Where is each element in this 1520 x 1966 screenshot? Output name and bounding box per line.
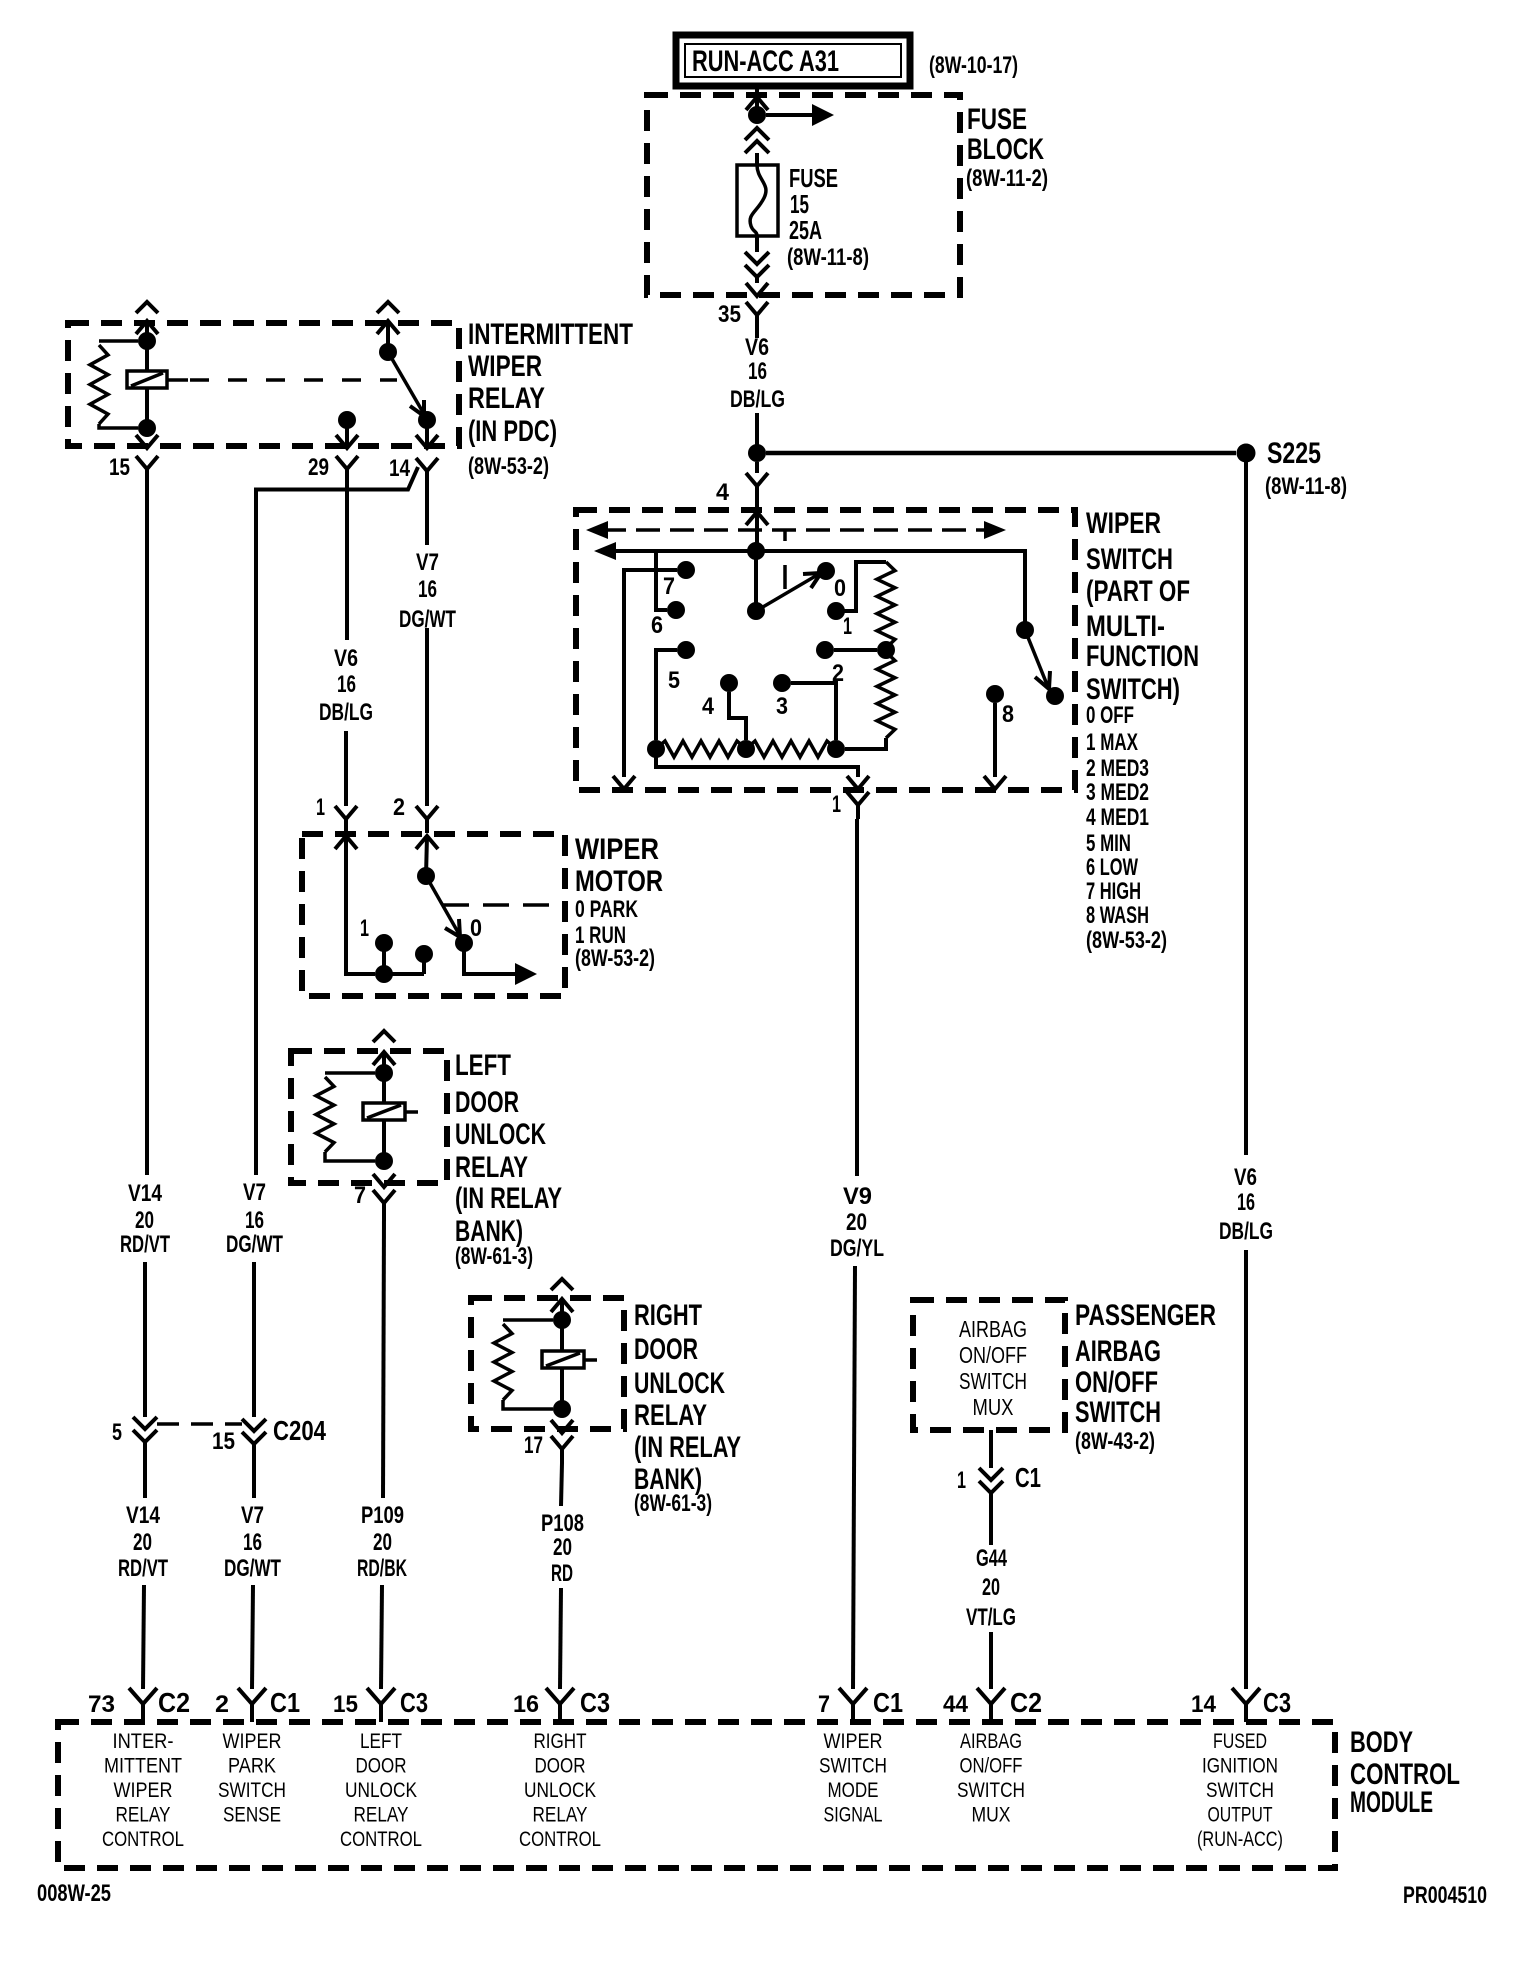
svg-text:20: 20: [373, 1529, 392, 1556]
wire to splice S225: [766, 451, 1236, 456]
svg-text:C2: C2: [158, 1687, 190, 1718]
svg-text:7 HIGH: 7 HIGH: [1086, 878, 1141, 905]
svg-text:LEFT: LEFT: [360, 1730, 402, 1753]
svg-text:V9: V9: [843, 1183, 872, 1210]
label WIPER MOTOR 0 PARK 1 RUN (8W-53-2): [575, 833, 663, 972]
node contact 6: [651, 553, 685, 639]
svg-text:IGNITION: IGNITION: [1202, 1755, 1278, 1778]
pin 1 connector (motor): [316, 794, 357, 849]
svg-text:DOOR: DOOR: [356, 1755, 407, 1778]
svg-text:(8W-11-8): (8W-11-8): [787, 244, 869, 271]
svg-text:AIRBAG: AIRBAG: [960, 1730, 1022, 1753]
svg-text:RELAY: RELAY: [455, 1151, 528, 1184]
svg-text:4 MED1: 4 MED1: [1086, 804, 1149, 831]
label V14 20 RD/VT (lower): [118, 1502, 168, 1582]
node motor park stub: [415, 945, 433, 974]
label V7 16 DG/WT (lower): [224, 1502, 281, 1582]
svg-text:WIPER: WIPER: [824, 1730, 883, 1753]
svg-text:RIGHT: RIGHT: [534, 1730, 587, 1753]
node contact 3: [773, 674, 836, 740]
svg-text:MODE: MODE: [828, 1779, 879, 1802]
wire V6 16 DB/LG (pin 29 to wiper motor 1): [346, 483, 347, 806]
svg-text:V7: V7: [241, 1502, 264, 1529]
svg-text:BLOCK: BLOCK: [967, 133, 1044, 166]
wire top entry: [373, 1031, 395, 1073]
BCM pin 44 C2: [943, 1687, 1042, 1722]
svg-text:SWITCH: SWITCH: [819, 1755, 887, 1778]
svg-text:RELAY: RELAY: [354, 1804, 409, 1827]
svg-text:16: 16: [418, 576, 437, 603]
node contact throw 14: [416, 411, 438, 448]
svg-text:V14: V14: [128, 1180, 163, 1207]
node motor bottom junction: [375, 965, 424, 983]
svg-text:SWITCH: SWITCH: [1075, 1396, 1161, 1429]
wire double chevron down to fuse: [745, 128, 769, 166]
node R1/R2 junction: [877, 641, 895, 659]
svg-text:2 MED3: 2 MED3: [1086, 755, 1149, 782]
resistor chain right: [746, 741, 836, 757]
svg-text:C204: C204: [273, 1415, 326, 1446]
motor switch arm: [426, 876, 460, 937]
BCM pin 2 C1: [215, 1687, 300, 1722]
label switch position list: [1086, 702, 1167, 954]
wire V7 to BCM: [252, 1585, 253, 1689]
wire branch arrow to right inside fuse block: [766, 104, 834, 126]
svg-text:FUSE: FUSE: [967, 103, 1027, 136]
svg-text:V6: V6: [1234, 1164, 1257, 1191]
label V6 16 DB/LG: [730, 334, 785, 413]
svg-text:UNLOCK: UNLOCK: [345, 1779, 417, 1802]
pin 2 connector (motor): [393, 794, 438, 849]
svg-text:1: 1: [843, 613, 852, 640]
svg-text:PARK: PARK: [228, 1755, 276, 1778]
BCM pin 73 C2: [88, 1687, 190, 1722]
svg-text:CONTROL: CONTROL: [102, 1828, 184, 1851]
node contact 2: [816, 641, 877, 687]
node motor contact 0: [455, 915, 482, 952]
svg-text:UNLOCK: UNLOCK: [524, 1779, 596, 1802]
wire V6 16 DB/LG from fuse block: [755, 329, 759, 445]
svg-text:(IN PDC): (IN PDC): [468, 415, 557, 448]
svg-text:25A: 25A: [789, 215, 822, 245]
relay coil (left door): [363, 1073, 418, 1161]
relay contact arm: [377, 302, 424, 416]
pin 35 connector: [718, 301, 768, 329]
label AIRBAG ON/OFF SWITCH MUX (inside): [959, 1316, 1027, 1420]
svg-text:(8W-53-2): (8W-53-2): [575, 945, 655, 972]
label V6 16 DB/LG (right): [1219, 1164, 1273, 1245]
node chain right: [827, 740, 845, 758]
svg-text:AIRBAG: AIRBAG: [1075, 1335, 1161, 1368]
body control module box: [58, 1722, 1335, 1868]
node contact 1: [827, 562, 886, 640]
node contact 8 wash: [984, 685, 1014, 789]
svg-text:C1: C1: [873, 1687, 903, 1718]
svg-text:MULTI-: MULTI-: [1086, 610, 1165, 643]
svg-text:FUSED: FUSED: [1213, 1730, 1267, 1753]
wire V6 16 DB/LG (S225 to BCM): [1244, 462, 1248, 1689]
relay box: intermittent wiper relay (in PDC): [68, 323, 459, 446]
connector C204 pin 15: [212, 1419, 266, 1498]
label V9 20 DG/YL: [830, 1183, 884, 1262]
svg-text:2: 2: [215, 1691, 229, 1718]
svg-text:RELAY: RELAY: [533, 1804, 588, 1827]
svg-text:0 PARK: 0 PARK: [575, 896, 638, 923]
resistor shunt (left door relay): [316, 1073, 375, 1161]
svg-text:7: 7: [818, 1691, 830, 1718]
wire G44 to BCM: [989, 1632, 993, 1689]
node common junction: [747, 542, 765, 611]
wire V7 branch from pin 14: [254, 467, 418, 1417]
switch arm to position 0: [756, 573, 821, 611]
connector C204 pin 5: [112, 1417, 157, 1498]
svg-text:SWITCH: SWITCH: [1206, 1779, 1274, 1802]
svg-text:73: 73: [88, 1691, 115, 1718]
svg-text:RELAY: RELAY: [116, 1804, 171, 1827]
wire to wiper switch pin 4: [716, 462, 768, 551]
label RIGHT DOOR UNLOCK RELAY (IN RELAY BANK) (8W-61-3): [634, 1299, 741, 1517]
wire top entry (right relay): [551, 1279, 573, 1320]
dashed park linkage: [443, 903, 565, 907]
svg-text:V14: V14: [126, 1502, 161, 1529]
wire V14 20 RD/VT (pin 15 to C204): [145, 483, 147, 1417]
svg-text:20: 20: [553, 1534, 572, 1561]
node junction dot at fuse feed: [748, 106, 766, 124]
svg-text:6 LOW: 6 LOW: [1086, 854, 1138, 881]
node contact 5: [656, 641, 695, 740]
svg-text:1: 1: [957, 1467, 966, 1494]
node motor contact 1: [360, 915, 393, 974]
svg-text:CONTROL: CONTROL: [340, 1828, 422, 1851]
svg-text:15: 15: [109, 454, 130, 481]
label FUSE 15 25A (8W-11-8): [787, 163, 869, 271]
svg-text:C3: C3: [1263, 1687, 1291, 1718]
svg-text:RELAY: RELAY: [468, 382, 545, 415]
svg-text:DOOR: DOOR: [634, 1333, 698, 1366]
svg-text:(8W-61-3): (8W-61-3): [634, 1490, 712, 1517]
C204 dashed tie: [157, 1422, 242, 1426]
label WIPER SWITCH (PART OF MULTI-FUNCTION SWITCH): [1086, 507, 1199, 706]
svg-text:14: 14: [1191, 1691, 1217, 1718]
svg-text:16: 16: [748, 358, 767, 385]
svg-text:V6: V6: [745, 334, 769, 361]
svg-text:3 MED2: 3 MED2: [1086, 779, 1149, 806]
wire pin 1 exit: [656, 749, 869, 789]
node chain middle: [737, 740, 755, 758]
svg-text:WIPER: WIPER: [1086, 507, 1161, 540]
svg-text:(8W-11-2): (8W-11-2): [966, 165, 1048, 192]
svg-text:C1: C1: [270, 1687, 300, 1718]
node coil bottom: [373, 1152, 395, 1187]
svg-text:1: 1: [316, 794, 325, 821]
dashed detent linkage: [783, 531, 787, 589]
svg-text:DB/LG: DB/LG: [730, 386, 785, 413]
wire pin 1 C1: [979, 1430, 1003, 1545]
BCM pin 14 C3: [1191, 1687, 1291, 1722]
wiper motor box: [302, 834, 565, 996]
node splice junction: [748, 444, 766, 462]
svg-text:20: 20: [846, 1209, 867, 1236]
svg-text:BODY: BODY: [1350, 1726, 1413, 1759]
svg-text:MUX: MUX: [973, 1394, 1014, 1420]
svg-text:(8W-53-2): (8W-53-2): [468, 453, 549, 480]
svg-text:WIPER: WIPER: [223, 1730, 282, 1753]
svg-text:DG/WT: DG/WT: [224, 1555, 281, 1582]
relay coil K1: [127, 341, 167, 428]
svg-text:1: 1: [832, 791, 841, 818]
svg-text:(8W-53-2): (8W-53-2): [1086, 927, 1167, 954]
svg-text:5: 5: [112, 1419, 122, 1446]
svg-text:4: 4: [716, 479, 730, 506]
svg-text:ON/OFF: ON/OFF: [1075, 1366, 1158, 1399]
svg-text:5: 5: [668, 667, 680, 694]
svg-text:RD/VT: RD/VT: [118, 1555, 168, 1582]
label INTERMITTENT WIPER RELAY (IN PDC) (8W-53-2): [468, 318, 633, 480]
wire motor pin1 to park contact: [346, 836, 375, 974]
svg-text:UNLOCK: UNLOCK: [634, 1367, 725, 1400]
node motor arm pivot: [417, 867, 435, 885]
relay box: left door unlock relay: [291, 1051, 447, 1183]
node contact 7: [613, 561, 695, 789]
svg-text:PASSENGER: PASSENGER: [1075, 1299, 1216, 1332]
label P108 20 RD: [541, 1510, 584, 1587]
svg-text:MUX: MUX: [972, 1804, 1011, 1827]
svg-text:2: 2: [393, 794, 405, 821]
svg-text:7: 7: [663, 573, 675, 600]
svg-text:3: 3: [776, 693, 788, 720]
node coil top (right): [553, 1311, 571, 1329]
svg-text:1 MAX: 1 MAX: [1086, 729, 1138, 756]
wire P108 20 RD: [560, 1463, 562, 1689]
svg-text:INTER-: INTER-: [113, 1730, 174, 1753]
svg-text:SENSE: SENSE: [223, 1804, 281, 1827]
svg-text:C1: C1: [1015, 1462, 1041, 1493]
svg-text:8 WASH: 8 WASH: [1086, 902, 1149, 929]
label V14 20 RD/VT: [120, 1180, 170, 1258]
BCM pin 15 C3: [333, 1687, 428, 1722]
node contact 0: [817, 562, 846, 602]
relay coil (right door): [542, 1320, 597, 1409]
svg-text:(8W-11-8): (8W-11-8): [1265, 473, 1347, 500]
svg-text:16: 16: [513, 1691, 539, 1718]
svg-text:DOOR: DOOR: [535, 1755, 586, 1778]
svg-text:AIRBAG: AIRBAG: [959, 1316, 1027, 1342]
svg-text:15: 15: [333, 1691, 358, 1718]
pin 15 connector: [109, 454, 158, 483]
svg-text:C2: C2: [1010, 1687, 1042, 1718]
node coil top: [375, 1064, 393, 1082]
svg-text:ON/OFF: ON/OFF: [959, 1342, 1027, 1368]
svg-text:20: 20: [135, 1207, 154, 1234]
svg-text:(RUN-ACC): (RUN-ACC): [1197, 1828, 1283, 1851]
switch arm right (wash): [1016, 621, 1064, 705]
relay box: right door unlock relay: [471, 1298, 624, 1429]
node RUN-ACC A31 feed box: [676, 35, 910, 86]
svg-text:C3: C3: [580, 1687, 610, 1718]
svg-text:5 MIN: 5 MIN: [1086, 830, 1131, 857]
svg-text:SWITCH: SWITCH: [957, 1779, 1025, 1802]
svg-text:16: 16: [245, 1207, 264, 1234]
svg-text:ON/OFF: ON/OFF: [960, 1755, 1023, 1778]
label V7 16 DG/WT (upper middle): [226, 1179, 283, 1258]
BCM pin 7 C1: [818, 1687, 903, 1722]
resistor shunt (right door relay): [494, 1320, 553, 1409]
wire P109 20 RD/BK: [381, 1217, 384, 1689]
label PASSENGER AIRBAG ON/OFF SWITCH (8W-43-2): [1075, 1299, 1216, 1455]
svg-text:RELAY: RELAY: [634, 1399, 707, 1432]
resistor relay shunt: [90, 341, 138, 428]
wire V14 to BCM: [143, 1585, 144, 1689]
svg-text:DOOR: DOOR: [455, 1086, 519, 1119]
svg-text:DG/WT: DG/WT: [226, 1231, 283, 1258]
node wiper arm pivot: [747, 602, 765, 620]
svg-text:20: 20: [982, 1574, 1000, 1601]
svg-text:16: 16: [243, 1529, 262, 1556]
svg-text:(PART OF: (PART OF: [1086, 575, 1190, 608]
node S225: [1237, 437, 1348, 500]
svg-text:RIGHT: RIGHT: [634, 1299, 702, 1332]
label BODY CONTROL MODULE: [1350, 1726, 1460, 1819]
node coil bottom (right): [551, 1400, 573, 1433]
svg-text:(IN RELAY: (IN RELAY: [634, 1431, 741, 1464]
svg-text:6: 6: [651, 612, 663, 639]
svg-text:4: 4: [702, 693, 715, 720]
svg-text:V7: V7: [416, 549, 439, 576]
svg-text:1: 1: [360, 915, 369, 942]
svg-text:RD/BK: RD/BK: [357, 1555, 407, 1582]
wire from fuse to pin 35: [745, 236, 769, 296]
pin 1 connector: [832, 791, 869, 819]
wire pin 15 exit: [136, 435, 158, 448]
svg-text:CONTROL: CONTROL: [519, 1828, 601, 1851]
svg-text:FUNCTION: FUNCTION: [1086, 640, 1199, 673]
resistor R1: [877, 562, 895, 648]
wire switch common bus: [594, 542, 1025, 630]
wire motor pin2 to arm pivot: [426, 836, 427, 876]
svg-text:0: 0: [834, 575, 846, 602]
svg-text:(8W-61-3): (8W-61-3): [455, 1243, 533, 1270]
pin 7 connector: [354, 1182, 395, 1217]
svg-text:44: 44: [943, 1691, 969, 1718]
label FUSE BLOCK (8W-11-2): [966, 103, 1048, 192]
fuse block enclosure: [647, 95, 960, 295]
node contact 29: [336, 411, 358, 448]
svg-text:0: 0: [470, 915, 482, 942]
svg-text:V7: V7: [243, 1179, 266, 1206]
svg-text:MODULE: MODULE: [1350, 1786, 1433, 1819]
wire from RUN-ACC into fuse block: [746, 86, 768, 115]
svg-text:0 OFF: 0 OFF: [1086, 702, 1134, 729]
svg-text:OUTPUT: OUTPUT: [1208, 1804, 1273, 1827]
node coil top junction: [138, 332, 156, 350]
label C204: [273, 1415, 326, 1446]
svg-text:MITTENT: MITTENT: [104, 1755, 182, 1778]
BCM pin 16 C3: [513, 1687, 610, 1722]
svg-text:(8W-43-2): (8W-43-2): [1075, 1428, 1155, 1455]
svg-text:UNLOCK: UNLOCK: [455, 1118, 546, 1151]
svg-text:LEFT: LEFT: [455, 1049, 511, 1082]
svg-text:SWITCH: SWITCH: [959, 1368, 1027, 1394]
svg-text:35: 35: [718, 301, 741, 328]
svg-text:DB/LG: DB/LG: [1219, 1218, 1273, 1245]
svg-text:VT/LG: VT/LG: [966, 1604, 1016, 1631]
label V7 16 DG/WT (motor): [399, 549, 456, 633]
svg-text:RD/VT: RD/VT: [120, 1231, 170, 1258]
label LEFT DOOR UNLOCK RELAY (IN RELAY BANK) (8W-61-3): [455, 1049, 562, 1270]
label G44 20 VT/LG: [966, 1545, 1016, 1631]
node coil bottom junction: [138, 419, 156, 437]
svg-text:WIPER: WIPER: [114, 1779, 173, 1802]
wiper switch box: [576, 510, 1075, 790]
svg-text:S225: S225: [1267, 437, 1321, 470]
svg-text:17: 17: [524, 1432, 543, 1459]
svg-text:V6: V6: [334, 645, 358, 672]
pin 1 / connector C1 labels: [957, 1462, 1041, 1494]
pin 29 connector: [308, 454, 358, 483]
pin 14 connector: [389, 455, 438, 485]
pin 17 connector: [524, 1432, 573, 1463]
svg-text:WIPER: WIPER: [575, 833, 659, 866]
wire relay coil feed (top entry): [136, 302, 158, 341]
wire motor run arrow: [464, 943, 537, 985]
svg-text:8: 8: [1002, 701, 1014, 728]
svg-text:(8W-10-17): (8W-10-17): [929, 52, 1018, 79]
svg-text:16: 16: [1237, 1189, 1255, 1216]
wire dashed double-headed arrow (mechanical): [586, 521, 1006, 539]
wire V9 20 DG/YL: [853, 819, 857, 1689]
svg-text:C3: C3: [400, 1687, 428, 1718]
svg-text:DG/WT: DG/WT: [399, 606, 456, 633]
svg-text:RUN-ACC A31: RUN-ACC A31: [692, 45, 839, 78]
svg-text:14: 14: [389, 455, 411, 482]
node chain left: [647, 740, 665, 758]
BCM pin function labels: [102, 1730, 1283, 1851]
svg-text:RD: RD: [551, 1560, 573, 1587]
airbag on/off switch box: [913, 1300, 1065, 1430]
svg-text:DG/YL: DG/YL: [830, 1235, 884, 1262]
svg-text:15: 15: [212, 1428, 235, 1455]
node contact 4: [702, 674, 746, 740]
svg-text:SIGNAL: SIGNAL: [824, 1804, 883, 1827]
svg-text:G44: G44: [976, 1545, 1007, 1572]
wire V7 16 DG/WT (pin 14 to wiper motor 2): [425, 485, 429, 806]
resistor chain left: [656, 741, 746, 757]
label P109 20 RD/BK: [357, 1502, 407, 1582]
svg-text:MOTOR: MOTOR: [575, 865, 663, 898]
svg-text:008W-25: 008W-25: [37, 1880, 111, 1907]
svg-text:DB/LG: DB/LG: [319, 699, 373, 726]
svg-text:29: 29: [308, 454, 329, 481]
svg-text:PR004510: PR004510: [1403, 1882, 1487, 1909]
svg-text:20: 20: [133, 1529, 152, 1556]
svg-text:P108: P108: [541, 1510, 584, 1537]
resistor R2: [845, 652, 895, 749]
svg-text:(IN RELAY: (IN RELAY: [455, 1182, 562, 1215]
coil to contact dashed linkage: [167, 378, 397, 382]
fuse F15 25A: [737, 165, 778, 236]
svg-text:INTERMITTENT: INTERMITTENT: [468, 318, 633, 351]
svg-text:7: 7: [354, 1182, 366, 1209]
svg-text:SWITCH: SWITCH: [1086, 543, 1173, 576]
label V6 16 DB/LG (motor): [319, 645, 373, 726]
svg-text:SWITCH: SWITCH: [218, 1779, 286, 1802]
svg-text:16: 16: [337, 671, 356, 698]
svg-text:WIPER: WIPER: [468, 350, 542, 383]
svg-text:P109: P109: [361, 1502, 404, 1529]
